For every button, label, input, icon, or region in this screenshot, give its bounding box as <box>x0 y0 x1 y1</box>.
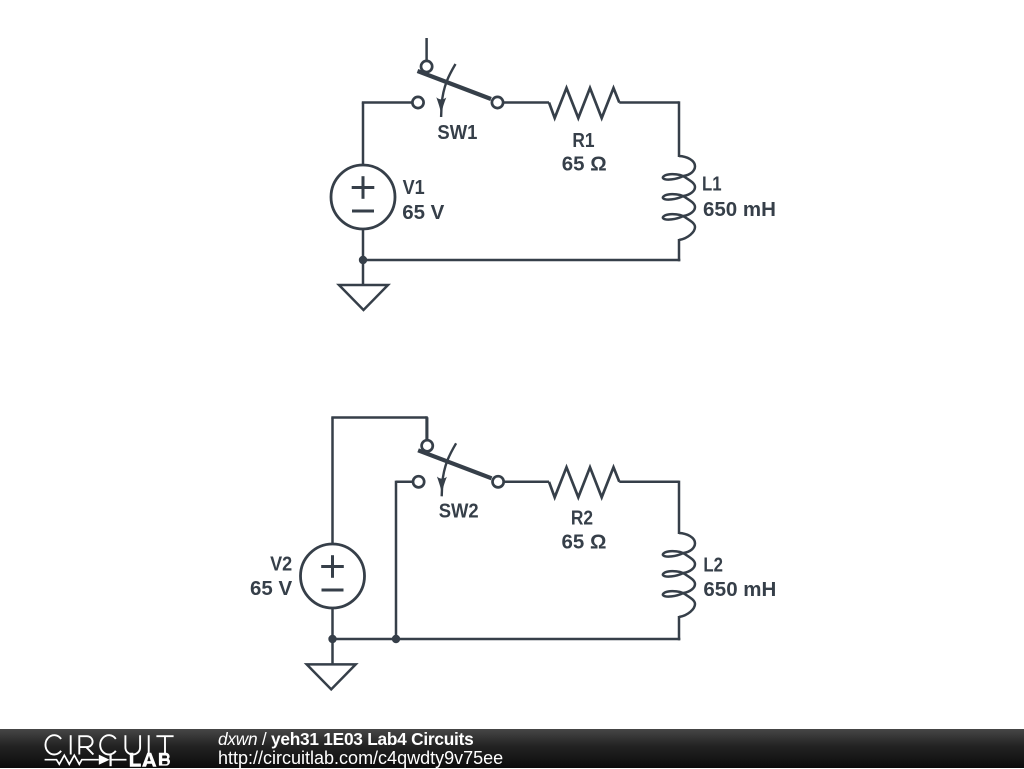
svg-text:65 V: 65 V <box>402 201 444 224</box>
switch SW2 top terminal circle <box>422 440 433 451</box>
svg-text:65 V: 65 V <box>250 577 292 600</box>
switch SW2 motion arrowhead <box>437 477 447 494</box>
svg-text:L2: L2 <box>703 553 723 576</box>
svg-text:L1: L1 <box>702 173 722 196</box>
wire left jog vertical down to bottom rail <box>395 481 398 639</box>
inductor L1 coil <box>663 156 695 240</box>
CircuitLab logo letter C2 <box>100 735 116 754</box>
svg-text:V1: V1 <box>403 176 425 199</box>
wire ground stub circuit 1 <box>362 260 365 285</box>
svg-text:650 mH: 650 mH <box>703 198 776 221</box>
wire V1 bottom vertical <box>362 229 365 260</box>
wire SW1 right terminal to R1 <box>504 101 550 104</box>
switch SW1 motion arrowhead <box>436 97 446 114</box>
wire L2 bottom to bottom rail <box>678 616 681 640</box>
CircuitLab logo letter I1 <box>70 735 72 754</box>
svg-text:65 Ω: 65 Ω <box>562 531 607 554</box>
voltage source V2 <box>301 544 365 608</box>
svg-text:65 Ω: 65 Ω <box>562 153 607 176</box>
node junction circuit 1 <box>359 256 367 264</box>
switch SW1 top terminal stub wire <box>425 38 428 61</box>
wire down to SW2 top terminal <box>425 416 428 440</box>
wire V2 top vertical <box>331 418 334 545</box>
node junction V2 bottom <box>328 635 336 643</box>
CircuitLab logo letter I2 <box>148 735 150 754</box>
inductor L2 coil <box>663 533 695 617</box>
switch SW1 left terminal circle <box>412 97 423 108</box>
switch SW1 motion arc <box>441 64 455 117</box>
node junction SW2 branch <box>392 635 400 643</box>
wire ground stub circuit 2 <box>331 639 334 664</box>
footer bar <box>0 729 1024 768</box>
switch SW2 left terminal circle <box>413 476 424 487</box>
wire right vertical down to L2 <box>678 481 681 534</box>
svg-text:SW1: SW1 <box>437 121 477 144</box>
CircuitLab logo wordmark LAB <box>130 753 170 767</box>
CircuitLab logo letter C1 <box>45 735 61 754</box>
wire V1 top-left vertical <box>362 103 365 166</box>
ground symbol circuit 1 <box>339 285 388 310</box>
svg-text:650 mH: 650 mH <box>703 578 776 601</box>
resistor R2 zigzag <box>549 467 619 497</box>
wire top horizontal V2 to SW2 top <box>331 416 426 419</box>
wire V2 bottom vertical <box>331 608 334 639</box>
switch SW1 right terminal circle <box>492 97 503 108</box>
svg-text:V2: V2 <box>270 552 292 575</box>
voltage source V1 <box>331 165 395 229</box>
switch SW2 motion arc <box>442 443 456 496</box>
switch SW2 top terminal stub wire <box>426 417 429 440</box>
CircuitLab logo resistor-diode squiggle <box>45 755 99 764</box>
CircuitLab logo letter U <box>125 735 140 754</box>
CircuitLab logo letter T <box>156 736 173 754</box>
footer url line <box>218 748 503 769</box>
svg-text:SW2: SW2 <box>439 500 479 523</box>
footer title line <box>218 729 473 750</box>
wire bottom rail circuit 2 <box>333 638 681 641</box>
wire L1 bottom to bottom rail <box>678 239 681 261</box>
wire R2 to right corner <box>619 481 679 484</box>
switch SW2 right terminal circle <box>493 476 504 487</box>
CircuitLab logo letter R <box>79 736 93 754</box>
switch SW1 top terminal circle <box>421 61 432 72</box>
wire SW2 left terminal to left jog <box>396 481 413 484</box>
wire R1 to top-right corner <box>619 101 679 104</box>
wire top-left horizontal to SW1 left terminal <box>362 101 412 104</box>
switch SW1 lever <box>418 71 492 99</box>
resistor R1 zigzag <box>549 88 619 118</box>
wire top-right vertical down to L1 <box>678 101 681 157</box>
ground symbol circuit 2 <box>307 664 356 689</box>
switch SW2 lever <box>418 450 492 478</box>
wire SW2 right terminal to R2 <box>504 481 550 484</box>
svg-text:R1: R1 <box>572 129 594 152</box>
wire bottom rail circuit 1 <box>363 259 680 262</box>
svg-text:R2: R2 <box>571 507 593 530</box>
